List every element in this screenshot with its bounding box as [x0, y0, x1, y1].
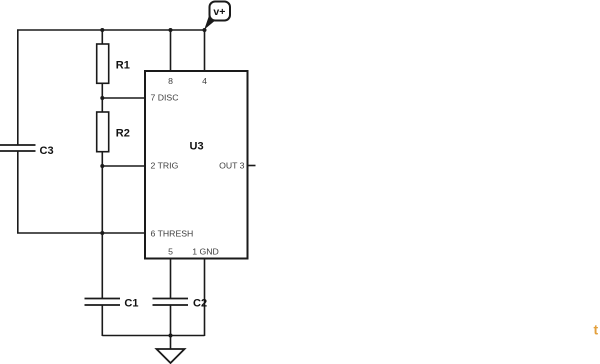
svg-text:6 THRESH: 6 THRESH [151, 229, 194, 239]
svg-text:1 GND: 1 GND [192, 247, 219, 257]
svg-text:R2: R2 [116, 128, 130, 140]
svg-text:C1: C1 [124, 298, 138, 310]
svg-text:v+: v+ [213, 6, 225, 18]
svg-text:C2: C2 [193, 298, 207, 310]
svg-text:C3: C3 [40, 145, 54, 157]
svg-text:5: 5 [168, 247, 173, 257]
svg-text:OUT 3: OUT 3 [219, 161, 245, 171]
svg-text:4: 4 [202, 76, 207, 86]
svg-text:2 TRIG: 2 TRIG [151, 161, 179, 171]
svg-text:7 DISC: 7 DISC [151, 93, 179, 103]
svg-text:t: t [594, 322, 599, 338]
svg-text:8: 8 [168, 76, 173, 86]
svg-text:R1: R1 [116, 60, 130, 72]
svg-text:U3: U3 [190, 141, 204, 153]
